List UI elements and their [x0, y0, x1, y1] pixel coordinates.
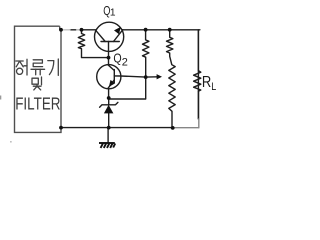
svg-text:R: R: [202, 74, 211, 91]
svg-text:L: L: [211, 81, 216, 93]
svg-text:FILTER: FILTER: [15, 94, 60, 114]
svg-text:1: 1: [110, 8, 116, 19]
svg-text:2: 2: [122, 57, 128, 69]
svg-text:Q: Q: [113, 51, 121, 66]
